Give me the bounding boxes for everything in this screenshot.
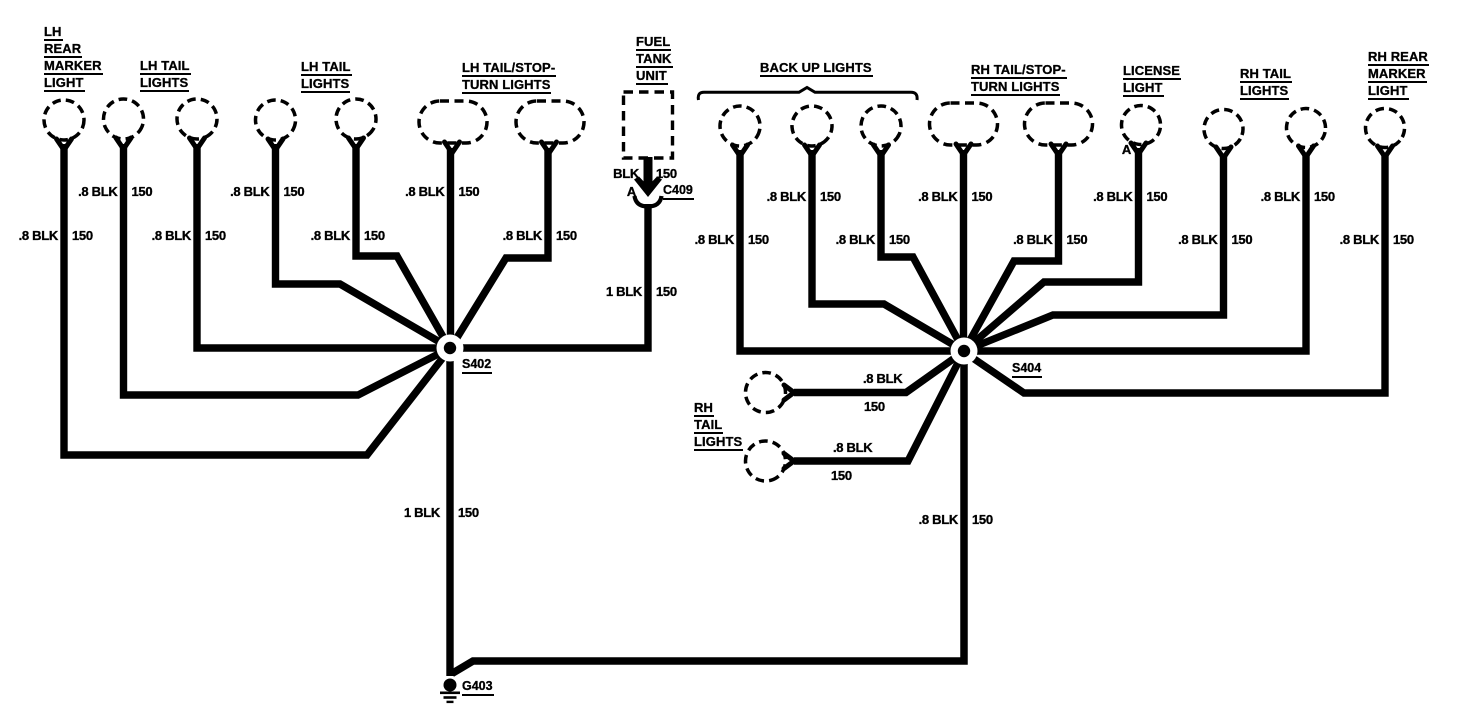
label: .8 BLK 150 on RH rear marker wire xyxy=(1340,232,1379,248)
label: .8 BLK 150 on LH tail/stop 1 wire xyxy=(405,184,444,200)
RH tail light socket (right 2) xyxy=(1299,146,1314,157)
label: .8 BLK 150 on LH tail 4 wire xyxy=(311,228,350,244)
label: 150 under RH tail B wire xyxy=(831,468,852,484)
wire: back up light (3rd) ground, .8 BLK 150, to S404 xyxy=(881,150,964,351)
wire: fuel tank unit stem, BLK 150, to connector C409 xyxy=(644,157,653,188)
label: .8 BLK 150 on back up 2 wire xyxy=(767,189,806,205)
LH rear marker light socket xyxy=(57,139,72,150)
RH tail/stop-turn light bulb 1 xyxy=(930,103,998,145)
label: pin A at C409 xyxy=(627,184,636,200)
wire: LH tail/stop-turn light (2nd) ground, .8 BLK 150, to S402 xyxy=(450,148,548,349)
license light socket pin A xyxy=(1131,143,1146,154)
splice S402 xyxy=(437,335,464,362)
label: .8 BLK 150 on RH tail/stop 2 wire xyxy=(1013,232,1052,248)
wire: LH tail lights (1st) ground, .8 BLK 150, to S402 xyxy=(124,144,453,395)
LH tail/stop-turn light socket 1 xyxy=(445,142,460,153)
back up light bulb 1 xyxy=(716,102,764,150)
label: ground G403 xyxy=(462,679,494,696)
label: RH TAIL LIGHTS (middle) xyxy=(694,400,743,451)
fuel tank unit (dashed box) xyxy=(624,92,673,158)
LH tail light bulb 1 xyxy=(98,93,149,144)
wire: RH tail lights (right 2nd) ground, .8 BLK 150, to S404 xyxy=(964,154,1306,351)
label: .8 BLK 150 on LH tail 3 wire xyxy=(230,184,269,200)
LH tail/stop-turn light bulb 1 xyxy=(419,101,487,143)
label: LH REAR MARKER LIGHT xyxy=(44,24,103,92)
brace over back up lights xyxy=(698,88,917,101)
LH tail/stop-turn light socket 2 xyxy=(542,142,557,153)
connector C409 male half (arrow) xyxy=(634,177,662,198)
wire: fuel tank unit ground, 1 BLK 150, C409 to S402 xyxy=(450,204,648,348)
label: .8 BLK 150 on S404 ground wire xyxy=(919,512,958,528)
label: pin A at license light xyxy=(1122,142,1131,158)
LH tail/stop-turn light bulb 2 xyxy=(516,101,584,143)
RH tail light bulb A (middle) xyxy=(739,366,792,419)
label: BACK UP LIGHTS xyxy=(760,60,873,77)
back up light bulb 3 xyxy=(855,100,908,153)
label: splice S402 xyxy=(462,357,492,374)
back up light socket 1 xyxy=(733,145,748,156)
label: LH TAIL/STOP-TURN LIGHTS xyxy=(462,60,556,94)
wire: RH tail/stop-turn light (2nd) ground, .8 BLK 150, to S404 xyxy=(964,150,1059,351)
label: LICENSE LIGHT xyxy=(1123,63,1181,97)
label: BLK 150 on fuel tank stem xyxy=(613,166,639,182)
LH tail light socket 4 xyxy=(349,138,364,149)
wire: RH tail lights (right 1st) ground, .8 BLK 150, to S404 xyxy=(964,154,1224,351)
LH tail light socket 3 xyxy=(268,139,283,150)
RH tail/stop-turn light socket 1 xyxy=(956,144,971,155)
label: .8 BLK 150 on back up 3 wire xyxy=(836,232,875,248)
wire: S402 to ground G403, 1 BLK 150 xyxy=(446,348,453,676)
wire: RH tail light A ground, .8 BLK 150, to S404 xyxy=(794,352,963,393)
label: connector C409 xyxy=(663,183,694,200)
RH tail/stop-turn light socket 2 xyxy=(1051,144,1066,155)
label: 1 BLK 150 below C409 xyxy=(606,284,642,300)
label: .8 BLK over RH tail B wire xyxy=(833,440,872,456)
label: RH REAR MARKER LIGHT xyxy=(1368,49,1429,100)
wire: LH tail lights (3rd) ground, .8 BLK 150, to S402 xyxy=(276,144,451,348)
label: RH TAIL LIGHTS (right) xyxy=(1240,66,1292,100)
RH tail light socket B xyxy=(784,454,794,469)
RH rear marker light socket xyxy=(1378,146,1393,157)
wire: RH tail light B ground, .8 BLK 150, to S404 xyxy=(794,353,963,461)
wire: S404 to ground G403, .8 BLK 150 xyxy=(452,351,964,674)
back up light bulb 2 xyxy=(784,98,840,154)
LH tail light bulb 4 xyxy=(328,91,383,146)
label: splice S404 xyxy=(1012,361,1042,378)
label: .8 BLK 150 on LH rear marker wire xyxy=(19,228,58,244)
label: LH TAIL LIGHTS (2) xyxy=(301,59,352,93)
connector C409 female half (cup) xyxy=(635,196,662,207)
LH tail light socket 1 xyxy=(116,138,131,149)
label: .8 BLK 150 on RH tail right 2 wire xyxy=(1261,189,1300,205)
wire: back up light (2nd) ground, .8 BLK 150, to S404 xyxy=(812,150,964,351)
wire: LH tail lights (4th) ground, .8 BLK 150, to S402 xyxy=(356,144,450,349)
RH rear marker light bulb xyxy=(1358,101,1413,156)
wire: RH tail/stop-turn light (1st) ground, .8 BLK 150, to S404 xyxy=(960,150,967,351)
ground G403 symbol xyxy=(440,679,460,704)
wire: back up light (1st) ground, .8 BLK 150, to S404 xyxy=(740,150,964,351)
label: .8 BLK 150 on LH tail 1 wire xyxy=(78,184,117,200)
wire: LH tail lights (2nd) ground, .8 BLK 150, to S402 xyxy=(197,144,450,348)
wire: LH rear marker light ground, .8 BLK 150, to S402 xyxy=(64,144,452,455)
label: FUEL TANK UNIT xyxy=(636,34,673,85)
wire: RH rear marker light ground, .8 BLK 150, to S404 xyxy=(964,154,1385,393)
label: .8 BLK over RH tail A wire xyxy=(863,371,902,387)
label: RH TAIL/STOP-TURN LIGHTS xyxy=(971,62,1067,96)
RH tail light socket (right 1) xyxy=(1216,147,1231,158)
label: .8 BLK 150 on RH tail/stop 1 wire xyxy=(918,189,957,205)
label: .8 BLK 150 on RH tail right 1 wire xyxy=(1178,232,1217,248)
RH tail light socket A xyxy=(784,385,794,400)
RH tail light bulb (right 2) xyxy=(1283,105,1329,151)
label: .8 BLK 150 on back up 1 wire xyxy=(695,232,734,248)
label: .8 BLK 150 on LH tail/stop 2 wire xyxy=(503,228,542,244)
label: LH TAIL LIGHTS (1) xyxy=(140,58,191,92)
back up light socket 3 xyxy=(874,145,889,156)
LH tail light bulb 3 xyxy=(252,97,298,143)
RH tail light bulb B (middle) xyxy=(738,433,794,489)
license light bulb xyxy=(1119,103,1163,147)
RH tail/stop-turn light bulb 2 xyxy=(1025,103,1093,145)
LH rear marker light bulb xyxy=(44,100,84,140)
RH tail light bulb (right 1) xyxy=(1197,102,1250,155)
label: .8 BLK 150 on license wire xyxy=(1093,189,1132,205)
back up light socket 2 xyxy=(805,145,820,156)
wire: LH tail/stop-turn light (1st) ground, .8 BLK 150, to S402 xyxy=(447,148,454,348)
label: .8 BLK 150 on LH tail 2 wire xyxy=(152,228,191,244)
label: 150 under RH tail A wire xyxy=(864,399,885,415)
splice S404 xyxy=(951,338,978,365)
LH tail light bulb 2 xyxy=(169,91,226,148)
wire: license light ground, .8 BLK 150, pin A to S404 xyxy=(964,148,1139,351)
label: 1 BLK 150 on S402 ground wire xyxy=(404,505,440,521)
LH tail light socket 2 xyxy=(190,138,205,149)
